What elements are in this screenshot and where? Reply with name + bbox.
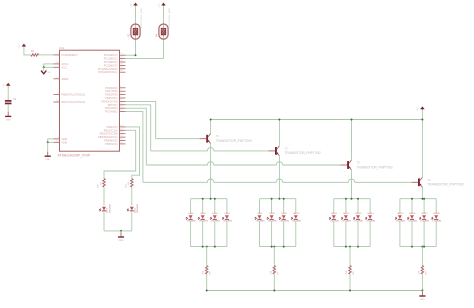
wire LED11 cathode [333, 221, 335, 247]
svg-text:+5V: +5V [3, 83, 5, 87]
node R9 bottom rail junction [423, 246, 425, 248]
svg-text:LED14: LED14 [367, 213, 374, 215]
LED LED5 [210, 213, 220, 223]
pin 5 PD3(INT1) [105, 96, 125, 100]
svg-text:LED3MM: LED3MM [330, 221, 339, 223]
wire LED14 cathode [369, 221, 371, 247]
svg-text:LED3MM: LED3MM [408, 221, 417, 223]
wire LED17 cathode [423, 221, 425, 247]
node R7 top rail junction [271, 198, 273, 200]
LED LED16 [407, 213, 417, 223]
wire LED group R8 anode rail [334, 198, 370, 200]
resistor R6 [203, 266, 212, 275]
svg-text:GND: GND [420, 299, 425, 301]
LED LED17 [419, 213, 429, 223]
wire LED4 cathode [202, 221, 204, 247]
wire LED group R6 cathode rail [191, 246, 227, 248]
node R8 bottom rail junction [345, 246, 347, 248]
svg-text:LED2: LED2 [134, 207, 136, 213]
node top rail junction x351 [351, 119, 353, 121]
LED LED14 [365, 213, 375, 223]
wire R6 cathode rail to resistor [206, 247, 208, 266]
wire LED18 anode [435, 199, 437, 214]
svg-text:R7: R7 [277, 271, 279, 275]
wire LED15 cathode [399, 221, 401, 247]
LED LED8 [267, 213, 277, 223]
pin 11 PD5(T1) [108, 103, 126, 107]
wire ground bus to ground symbol [421, 290, 423, 293]
LED LED18 [431, 213, 441, 223]
wire PD6 to T3 base [126, 108, 147, 165]
wire LED8 cathode [271, 221, 273, 247]
svg-text:LED3MM: LED3MM [187, 221, 196, 223]
LED LED12 [341, 213, 351, 223]
node R8 top rail junction [351, 198, 353, 200]
svg-text:PB1(OC1A): PB1(OC1A) [104, 128, 118, 132]
svg-text:R8: R8 [353, 271, 355, 275]
svg-text:R6: R6 [210, 271, 212, 275]
wire LED group R8 cathode rail [334, 246, 370, 248]
node status rail junction [120, 230, 122, 232]
wire LED6 anode [226, 199, 228, 214]
svg-text:LED15: LED15 [397, 213, 404, 215]
wire R8 to ground bus [349, 274, 351, 291]
svg-text:PD3(INT1): PD3(INT1) [105, 96, 118, 100]
svg-text:LED3MM: LED3MM [137, 204, 139, 213]
svg-text:PD1(TXD): PD1(TXD) [106, 89, 118, 93]
wire PD4 to T1 base [126, 101, 200, 138]
wire LED11 anode [333, 199, 335, 214]
svg-text:LED3MM: LED3MM [256, 221, 265, 223]
pin 1 PC6(/RESET) [54, 53, 78, 57]
wire AVCC VCC net [44, 64, 54, 67]
svg-text:R9: R9 [425, 271, 427, 275]
svg-text:GND: GND [119, 240, 124, 242]
svg-text:IC1: IC1 [60, 46, 65, 50]
pin 26 PC3(ADC3) [104, 63, 126, 67]
wire LED16 cathode [411, 221, 413, 247]
ground arrow at AVCC net [41, 71, 52, 75]
wire LED7 cathode [259, 221, 261, 247]
svg-text:TRANSISTOR_PNPTO92: TRANSISTOR_PNPTO92 [285, 151, 321, 155]
svg-text:PD2(INT0): PD2(INT0) [105, 93, 118, 97]
svg-text:LED11: LED11 [331, 213, 338, 215]
resistor R2 [98, 179, 106, 188]
pin 8 GND [54, 137, 68, 141]
svg-text:270: 270 [125, 184, 127, 188]
svg-text:LED3MM: LED3MM [354, 221, 363, 223]
svg-text:LED16: LED16 [409, 213, 416, 215]
pin 24 PC1(ADC1) [104, 57, 126, 61]
svg-text:LED3MM: LED3MM [342, 221, 351, 223]
wire LED16 anode [411, 199, 413, 214]
wire T1 emitter to +5V rail [210, 120, 212, 134]
wire LED12 cathode [345, 221, 347, 247]
svg-text:LED10: LED10 [293, 213, 300, 215]
pin 4 PD2(INT0) [105, 93, 125, 97]
node ground bus junction x422 [421, 290, 423, 292]
svg-text:ATMEGA328P_PDIP: ATMEGA328P_PDIP [58, 154, 91, 158]
svg-text:PB6(XTAL1/TOSC1): PB6(XTAL1/TOSC1) [62, 93, 86, 97]
svg-text:LED3: LED3 [188, 213, 194, 215]
wire junction down [43, 67, 45, 70]
node R9 bottom rail junction [421, 246, 423, 248]
wire LED3 cathode [190, 221, 192, 247]
node R6 bottom rail junction [206, 246, 208, 248]
wire LED10 cathode [295, 221, 297, 247]
pin 14 PB0(ICP) [107, 125, 126, 129]
svg-text:R1: R1 [31, 50, 35, 53]
wire R8 cathode rail to resistor [349, 247, 351, 266]
ground symbol right [419, 291, 425, 301]
node R9 top rail junction [421, 198, 423, 200]
wire C1 to ground [7, 104, 9, 112]
svg-text:PC4(ADC4/SDA): PC4(ADC4/SDA) [98, 67, 118, 71]
wire PB0 to R5 [126, 127, 140, 179]
node R6 bottom rail junction [214, 246, 216, 248]
wire GND junction down [47, 142, 49, 151]
svg-text:PC5(ADC5/SCL): PC5(ADC5/SCL) [98, 70, 118, 74]
svg-text:LED3MM: LED3MM [292, 221, 301, 223]
svg-text:VCC: VCC [62, 65, 68, 69]
resistor R5 [125, 179, 133, 188]
pin 21 AREF [54, 77, 69, 81]
svg-text:270: 270 [418, 270, 420, 274]
wire T4 collector to LED group [421, 188, 423, 199]
wire R9 to ground bus [421, 274, 423, 291]
wire pin PC1 to photocell R4 [126, 58, 164, 60]
svg-text:270: 270 [346, 270, 348, 274]
wire LED10 anode [295, 199, 297, 214]
resistor R9 [418, 266, 427, 275]
wire LED15 anode [399, 199, 401, 214]
photoresistor R4 PHOTOCELL_5MM [157, 8, 171, 39]
node R6 bottom rail junction [202, 246, 204, 248]
wire LED5 anode [214, 199, 216, 214]
wire R2 to LED1 [103, 187, 105, 206]
svg-text:PB3(MOSI/OC2): PB3(MOSI/OC2) [98, 135, 117, 139]
wire +5V top rail [211, 119, 423, 121]
node ground bus junction x206 [206, 290, 208, 292]
svg-text:GND: GND [62, 137, 68, 141]
svg-text:PC2(ADC2): PC2(ADC2) [104, 60, 118, 64]
supply +5V arrow at photocell R3 [130, 3, 138, 8]
svg-text:LED1: LED1 [107, 207, 109, 213]
svg-text:270: 270 [270, 270, 272, 274]
resistor R7 [270, 266, 279, 275]
wire LED18 cathode [435, 221, 437, 247]
svg-text:PD5(T1): PD5(T1) [108, 103, 118, 107]
LED LED11 [329, 213, 339, 223]
node R7 bottom rail junction [271, 246, 273, 248]
svg-text:T4: T4 [428, 178, 432, 182]
pin 2 PD0(RXD) [105, 86, 125, 90]
svg-text:GND: GND [47, 72, 52, 74]
svg-text:LED3MM: LED3MM [280, 221, 289, 223]
wire LED group R9 anode rail [400, 198, 436, 200]
pin 28 PC5(ADC5/SCL) [98, 70, 125, 74]
wire T2 collector to LED group [278, 156, 280, 199]
LED LED15 [395, 213, 405, 223]
node R8 top rail junction [357, 198, 359, 200]
node top rail junction x210 [210, 119, 212, 121]
svg-text:PC6(/RESET): PC6(/RESET) [62, 53, 78, 57]
pin 15 PB1(OC1A) [104, 128, 126, 132]
transistor T4 TRANSISTOR_PNPTO92 [411, 177, 464, 187]
photoresistor R3 PHOTOCELL_5MM [129, 8, 143, 39]
svg-text:PB4(MISO): PB4(MISO) [104, 139, 117, 143]
node R6 top rail junction [210, 198, 212, 200]
wire R6 to ground bus [206, 274, 208, 291]
wire LED group R9 cathode rail [400, 246, 436, 248]
wire LED2 down [131, 212, 133, 231]
node PC0 photocell junction [135, 54, 137, 56]
node R9 bottom rail junction [411, 246, 413, 248]
wire LED6 cathode [226, 221, 228, 247]
svg-text:270: 270 [98, 184, 100, 188]
LED LED7 [255, 213, 265, 223]
pin 10 PB7(XTAL2/TOSC2) [54, 100, 86, 104]
pin 13 PD7(AIN1) [105, 110, 126, 114]
pin 3 PD1(TXD) [106, 89, 126, 93]
transistor T3 TRANSISTOR_PNPTO92 [341, 160, 394, 170]
node GND pins junction [47, 141, 49, 143]
wire pin PC0 to photocell R3 [126, 54, 136, 56]
svg-text:LED3MM: LED3MM [223, 221, 232, 223]
svg-text:PC0(ADC0): PC0(ADC0) [104, 53, 118, 57]
node R6 top rail junction [214, 198, 216, 200]
supply +5V arrow at C1 [3, 83, 11, 88]
wire LED group R7 cathode rail [260, 246, 296, 248]
svg-text:T2: T2 [285, 146, 289, 150]
ground symbol at GND pins [45, 152, 51, 162]
svg-text:+5V: +5V [19, 44, 21, 48]
wire GND pins net [48, 139, 54, 142]
supply +5V arrow at R1 [19, 44, 27, 49]
pin 20 AVCC [54, 62, 69, 66]
wire +5V to C1 [7, 86, 9, 100]
wire LED14 anode [369, 199, 371, 214]
ground symbol status LEDs [118, 232, 124, 242]
LED LED13 [353, 213, 363, 223]
svg-text:PB0(ICP): PB0(ICP) [107, 125, 118, 129]
svg-text:LED4: LED4 [200, 213, 206, 215]
wire LED4 anode [202, 199, 204, 214]
pin 6 PD4(XCK/T0) [102, 99, 126, 103]
wire LED12 anode [345, 199, 347, 214]
pin 19 PB5(SCK) [106, 142, 126, 146]
svg-text:LED6: LED6 [225, 213, 231, 215]
wire T4 emitter to +5V rail [421, 109, 423, 177]
supply +5V arrow at photocell R4 [158, 3, 166, 8]
svg-text:PB7(XTAL2/TOSC2): PB7(XTAL2/TOSC2) [62, 100, 86, 104]
wire LED3 anode [190, 199, 192, 214]
svg-text:LED3MM: LED3MM [432, 221, 441, 223]
svg-text:GND: GND [62, 140, 68, 144]
wire LED9 cathode [283, 221, 285, 247]
wire LED5 cathode [214, 221, 216, 247]
wire LED7 anode [259, 199, 261, 214]
wire LED13 cathode [357, 221, 359, 247]
wire PD5 to T2 base [126, 105, 151, 151]
wire +5V to photocell R4 [163, 6, 165, 59]
svg-text:TRANSISTOR_PNPTO92: TRANSISTOR_PNPTO92 [428, 183, 464, 187]
svg-text:PD6(AIN0): PD6(AIN0) [105, 106, 118, 110]
wire R5 to LED2 [131, 187, 133, 206]
svg-text:LED3MM: LED3MM [199, 221, 208, 223]
wire LED8 anode [271, 199, 273, 214]
svg-text:LED3MM: LED3MM [396, 221, 405, 223]
node R8 bottom rail junction [349, 246, 351, 248]
wire T3 collector to LED group [351, 170, 353, 199]
pin 25 PC2(ADC2) [104, 60, 126, 64]
wire LED13 anode [357, 199, 359, 214]
wire LED1 down [103, 212, 105, 231]
svg-text:PD7(AIN1): PD7(AIN1) [105, 110, 118, 114]
node top rail junction x279 [278, 119, 280, 121]
svg-text:PD4(XCK/T0): PD4(XCK/T0) [102, 99, 118, 103]
node R8 top rail junction [345, 198, 347, 200]
node R7 bottom rail junction [273, 246, 275, 248]
svg-text:R2: R2 [100, 181, 102, 185]
svg-text:LED17: LED17 [421, 213, 428, 215]
node AVCC-VCC junction [43, 66, 45, 68]
pin 7 VCC [54, 65, 68, 69]
wire T3 emitter to +5V rail [351, 120, 353, 160]
LED LED10 [291, 213, 301, 223]
svg-text:LED3MM: LED3MM [109, 204, 111, 213]
pin 12 PD6(AIN0) [105, 106, 126, 110]
LED LED9 [279, 213, 289, 223]
svg-text:T3: T3 [357, 161, 361, 165]
svg-text:LED12: LED12 [343, 213, 350, 215]
svg-text:LED5: LED5 [212, 213, 218, 215]
svg-text:LED8: LED8 [269, 213, 275, 215]
svg-text:AREF: AREF [62, 77, 69, 81]
node R9 top rail junction [423, 198, 425, 200]
pin 18 PB4(MISO) [104, 139, 125, 143]
svg-text:PB2(SS/OC1B): PB2(SS/OC1B) [100, 132, 118, 136]
wire PD7 to T4 base [126, 112, 143, 183]
wire T1 collector to LED group [210, 144, 212, 199]
wire +5V to R1 [24, 47, 31, 55]
node ground bus junction x350 [349, 290, 351, 292]
LED LED6 [222, 213, 232, 223]
pin 22 GND [54, 140, 68, 144]
svg-text:PC3(ADC3): PC3(ADC3) [104, 63, 118, 67]
svg-text:T1: T1 [216, 134, 220, 138]
wire R7 to ground bus [273, 274, 275, 291]
IC IC1 ATMEGA328P_PDIP microcontroller body [58, 46, 120, 158]
svg-text:270: 270 [203, 270, 205, 274]
wire +5V to photocell R3 [135, 6, 137, 56]
svg-text:AVCC: AVCC [62, 62, 69, 66]
wire LED group R6 anode rail [191, 198, 227, 200]
svg-text:+5V: +5V [130, 3, 132, 7]
wire PB1 to R2 [104, 130, 136, 178]
node top rail junction x422 [421, 119, 423, 121]
node R9 top rail junction [411, 198, 413, 200]
wire status rail to ground [120, 231, 122, 233]
wire R7 cathode rail to resistor [273, 247, 275, 266]
node R8 bottom rail junction [357, 246, 359, 248]
svg-text:LED13: LED13 [355, 213, 362, 215]
wire R9 cathode rail to resistor [421, 247, 423, 266]
wire ground bus [207, 290, 423, 292]
transistor T1 TRANSISTOR_PNPTO92 [200, 134, 253, 144]
svg-text:LED18: LED18 [433, 213, 440, 215]
node R7 top rail junction [283, 198, 285, 200]
svg-text:LED9: LED9 [281, 213, 287, 215]
pin 27 PC4(ADC4/SDA) [98, 67, 126, 71]
node R7 bottom rail junction [283, 246, 285, 248]
svg-text:+5V: +5V [158, 3, 160, 7]
svg-text:+5V: +5V [417, 107, 419, 111]
wire LED group R7 anode rail [260, 198, 296, 200]
wire status LED ground rail [104, 230, 132, 232]
svg-text:GND: GND [6, 119, 11, 121]
svg-text:TRANSISTOR_PNPTO92: TRANSISTOR_PNPTO92 [216, 139, 252, 143]
pin 16 PB2(SS/OC1B) [100, 132, 126, 136]
svg-text:R5: R5 [128, 181, 130, 185]
wire LED9 anode [283, 199, 285, 214]
node ground bus junction x274 [273, 290, 275, 292]
svg-text:LED3MM: LED3MM [420, 221, 429, 223]
node R6 top rail junction [202, 198, 204, 200]
svg-text:LED7: LED7 [257, 213, 263, 215]
svg-text:TRANSISTOR_PNPTO92: TRANSISTOR_PNPTO92 [357, 165, 393, 169]
svg-text:PD0(RXD): PD0(RXD) [105, 86, 117, 90]
svg-text:GND: GND [45, 159, 50, 161]
wire R1 to pin PC6 [39, 54, 54, 56]
pin 23 PC0(ADC0) [104, 53, 126, 57]
wire LED17 anode [423, 199, 425, 214]
svg-text:PHOTOCELL_5MM: PHOTOCELL_5MM [141, 8, 143, 27]
capacitor C1 [5, 98, 17, 104]
svg-text:LED3MM: LED3MM [366, 221, 375, 223]
resistor R8 [346, 266, 355, 275]
LED LED3 [186, 213, 196, 223]
ground symbol below C1 [5, 112, 11, 122]
LED LED4 [198, 213, 208, 223]
LED LED2 [127, 204, 139, 213]
svg-text:PHOTOCELL_5MM: PHOTOCELL_5MM [169, 8, 171, 27]
svg-text:LED3MM: LED3MM [211, 221, 220, 223]
supply +5V arrow right [417, 106, 425, 111]
svg-text:PB5(SCK): PB5(SCK) [106, 142, 118, 146]
node R7 top rail junction [278, 198, 280, 200]
pin 9 PB6(XTAL1/TOSC1) [54, 93, 86, 97]
svg-text:PC1(ADC1): PC1(ADC1) [104, 57, 118, 61]
svg-text:C1: C1 [13, 98, 17, 101]
wire T2 emitter to +5V rail [278, 120, 280, 146]
svg-text:LED3MM: LED3MM [268, 221, 277, 223]
resistor R1 [31, 50, 39, 56]
transistor T2 TRANSISTOR_PNPTO92 [268, 146, 321, 156]
LED LED1 [99, 204, 111, 213]
pin 17 PB3(MOSI/OC2) [98, 135, 125, 139]
